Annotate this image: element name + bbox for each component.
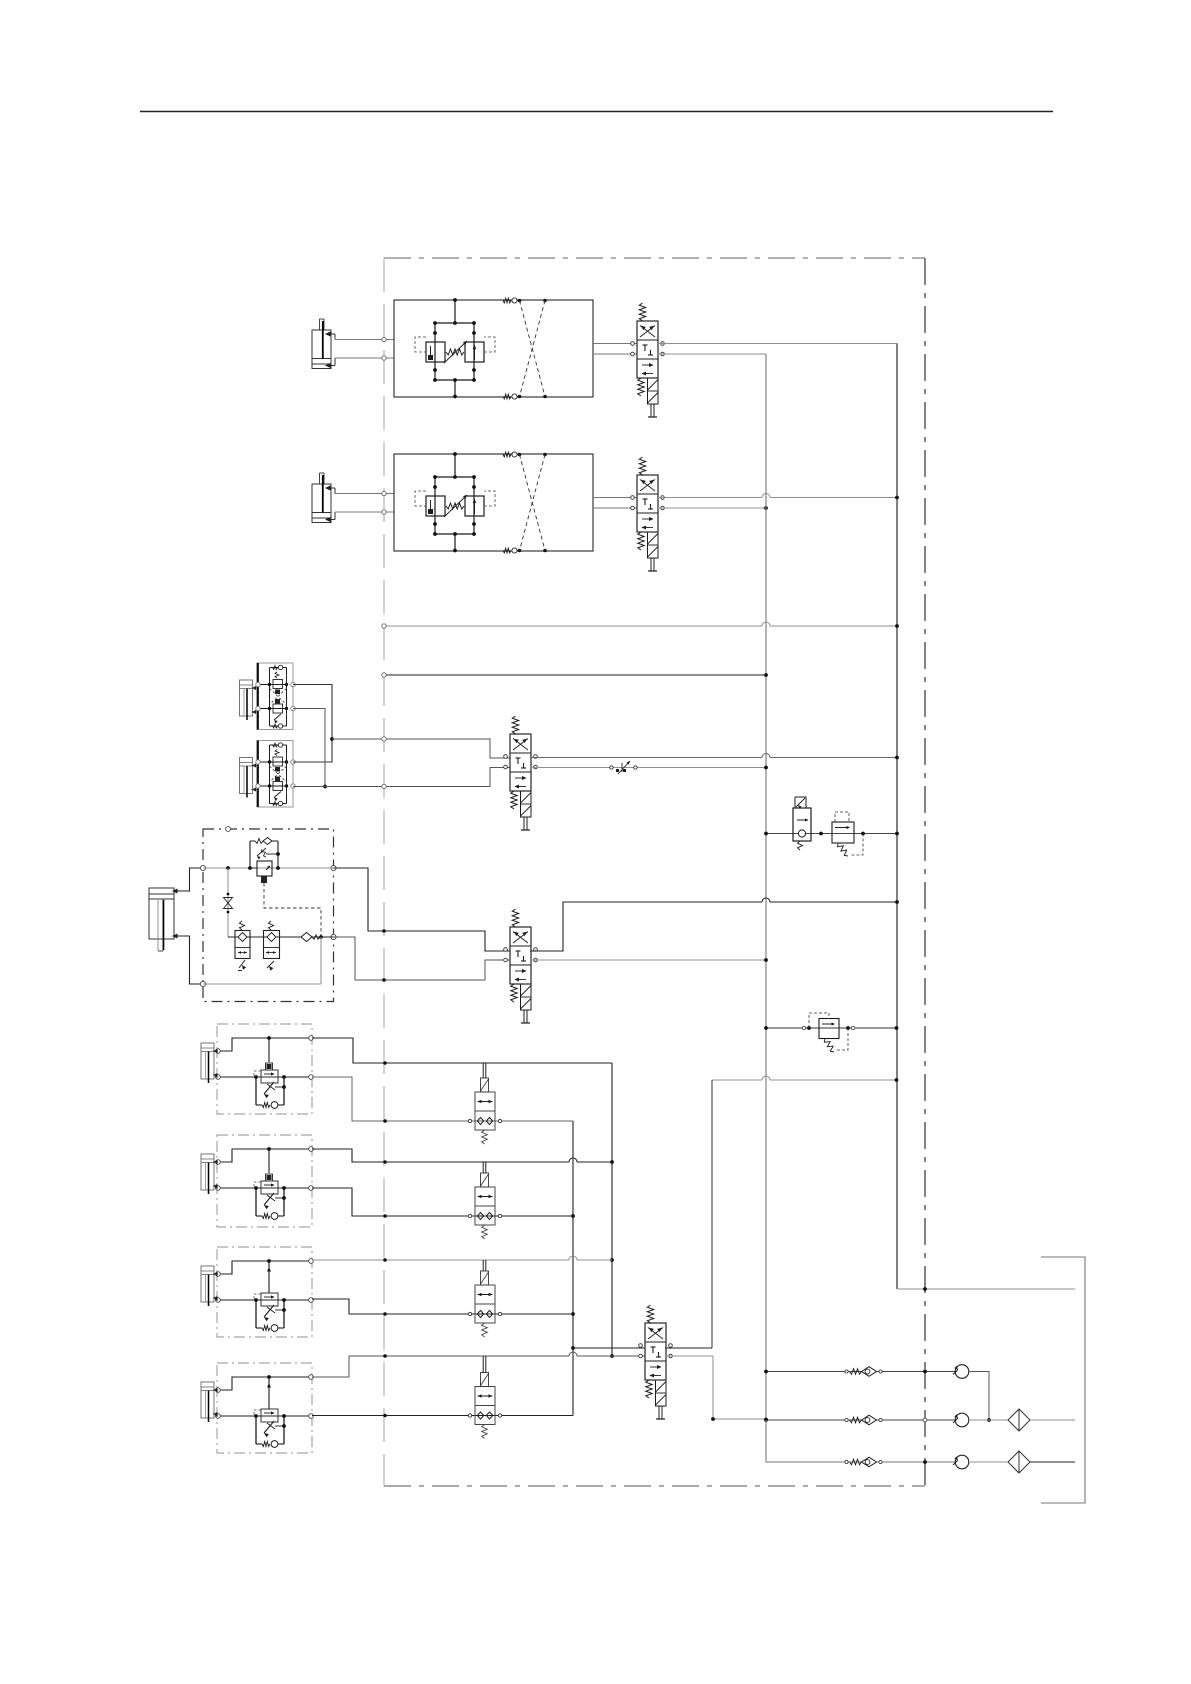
assembly pilot dashed line	[264, 883, 321, 936]
T-bus vertical wire	[765, 354, 767, 1462]
wire bus to DV5 port A	[573, 1347, 645, 1349]
counterbalance block BB	[240, 741, 296, 808]
assembly line y937	[228, 935, 334, 939]
port circle boundary y339	[382, 337, 386, 341]
wire assembly to DV4 port B	[334, 937, 511, 982]
valve-block boundary right edge	[924, 258, 926, 1486]
gauge G1	[953, 1365, 969, 1379]
wire DV1 to P-bus	[658, 343, 897, 345]
return row 3	[766, 1420, 955, 1464]
pilot check valve PC1	[793, 797, 811, 850]
wire P-bus to tank return	[897, 1287, 1075, 1291]
wire BA port2 to BB port2 bus	[293, 709, 327, 789]
valve-block boundary left edge	[383, 258, 385, 1486]
wire M1 bottom to V1 line	[312, 1077, 573, 1123]
feeder vertical x713	[712, 1356, 714, 1419]
solenoid valve V2	[468, 1162, 501, 1239]
wire gauge G1 down	[969, 1372, 989, 1421]
wire G3 to filter F2	[969, 1461, 1008, 1463]
relief valve RV2	[809, 1013, 848, 1052]
filter F1	[1008, 1409, 1030, 1431]
assembly check branch	[250, 838, 278, 869]
assembly port circle B	[200, 981, 205, 986]
wire spare port y626	[382, 622, 899, 628]
wire CB2 to DV2 port B	[593, 507, 637, 509]
assembly valve VA	[235, 921, 250, 971]
assembly port circle A	[200, 865, 205, 870]
wire spare port y675	[382, 673, 768, 677]
wire CYL3 rod to assembly port	[174, 936, 203, 984]
wire CB1 to DV1 port B	[593, 353, 637, 355]
wire M4 top to DV5 port B	[312, 1352, 645, 1377]
valve-block boundary bottom edge	[384, 1485, 925, 1487]
wire CYL1 bottom port to block P1	[335, 357, 394, 359]
return row 1	[764, 1370, 955, 1374]
cylinder assembly boundary	[203, 829, 334, 1002]
wire CYL1 top port to block P1	[335, 339, 394, 341]
wire F1 to tank	[1030, 1419, 1075, 1421]
wire DV4 to T-bus	[530, 958, 768, 962]
wire CYL2 top port to block	[335, 493, 394, 495]
gauge G3	[953, 1455, 969, 1469]
actuator block M3	[201, 1247, 313, 1337]
feeder vertical x712	[711, 1080, 713, 1348]
assembly line y984	[203, 937, 321, 984]
bus x612 vertical	[610, 1063, 614, 1358]
wire M4 bottom to V4 line	[312, 1414, 573, 1418]
wire DV5 to feeder x713	[665, 1355, 713, 1357]
relief valve RV1	[832, 812, 863, 856]
wire G2 to filter F1	[969, 1419, 1008, 1421]
P-bus vertical wire	[896, 344, 898, 1290]
wire BB port2 to DV3 port B	[293, 768, 510, 789]
counterbalance valve block CB2	[394, 452, 593, 553]
directional valve DV4	[504, 909, 538, 1023]
wire CB2 to DV2 port A	[593, 497, 637, 499]
wire relief row y833	[764, 832, 899, 836]
wire relief row y1028	[764, 1026, 898, 1030]
wire M2 bottom to V2 line	[312, 1188, 573, 1218]
wire BA port1 to BB port1 bus	[293, 685, 334, 763]
wire CYL2 bottom port to block	[335, 511, 394, 513]
tank bracket	[1041, 1257, 1085, 1503]
solenoid valve V1	[468, 1063, 501, 1144]
directional valve DV2	[631, 457, 665, 571]
page top rule	[140, 111, 1053, 113]
wire DV3 to P-bus	[530, 754, 899, 760]
directional valve DV3	[504, 716, 538, 830]
solenoid valve V3	[468, 1260, 501, 1337]
port circle boundary y358	[382, 356, 386, 360]
actuator block M2	[201, 1135, 313, 1227]
wire DV5 to feeder x712	[665, 1347, 712, 1349]
wire F2 to tank	[1030, 1461, 1075, 1463]
wire CB1 to DV1 port A	[593, 343, 637, 345]
actuator block M1	[201, 1024, 313, 1114]
wire DV2 to T-bus	[658, 506, 768, 510]
wire M3 bottom to V3 line	[312, 1299, 573, 1316]
port circle boundary y493	[382, 491, 386, 495]
wire M1 top to bus x612	[312, 1038, 612, 1065]
actuator block M4	[201, 1363, 313, 1453]
solenoid valve V4	[468, 1356, 501, 1439]
wire assembly to DV4 port A	[334, 868, 511, 951]
wire DV1 to T-bus	[658, 353, 766, 355]
check valve row1	[845, 1367, 882, 1377]
assembly port circle D	[331, 934, 336, 939]
assembly check CK	[301, 933, 320, 942]
wire M3 top to bus x612	[312, 1256, 612, 1262]
wire pump line y1080	[712, 1076, 898, 1082]
hydraulic cylinder CYL2	[312, 473, 335, 523]
wire CYL3 head to assembly port	[174, 868, 203, 891]
assembly orifice	[224, 868, 233, 937]
assembly valve VB	[264, 921, 280, 971]
directional valve DV1	[631, 303, 665, 417]
bus x573 vertical	[571, 1121, 575, 1416]
assembly top port	[226, 827, 231, 832]
wire M2 top to bus x612	[312, 1149, 612, 1164]
wire DV2 to P-bus	[658, 494, 899, 500]
filter F2	[1008, 1451, 1030, 1473]
counterbalance valve block CB1	[394, 298, 593, 399]
gauge G2	[953, 1413, 969, 1427]
valve-block boundary top edge	[384, 257, 925, 259]
hydraulic cylinder CYL3	[149, 888, 178, 951]
assembly pilot relief	[250, 848, 280, 883]
inline throttle on DV3 tank line	[610, 761, 637, 774]
check valve row3	[845, 1457, 882, 1467]
wire x713 to T-bus	[711, 1417, 768, 1421]
return row 2	[764, 1418, 991, 1422]
hydraulic cylinder CYL1	[312, 319, 335, 369]
directional valve DV5	[639, 1305, 673, 1419]
wire to DV3 port A	[332, 737, 510, 758]
assembly internal line y868	[203, 866, 334, 870]
port circle boundary y512	[382, 510, 386, 514]
assembly port circle C	[331, 865, 336, 870]
wire DV3 to T-bus	[530, 766, 768, 770]
counterbalance block BA	[240, 663, 296, 730]
wire DV4 to P-bus	[530, 898, 899, 951]
check valve row2	[845, 1415, 882, 1425]
